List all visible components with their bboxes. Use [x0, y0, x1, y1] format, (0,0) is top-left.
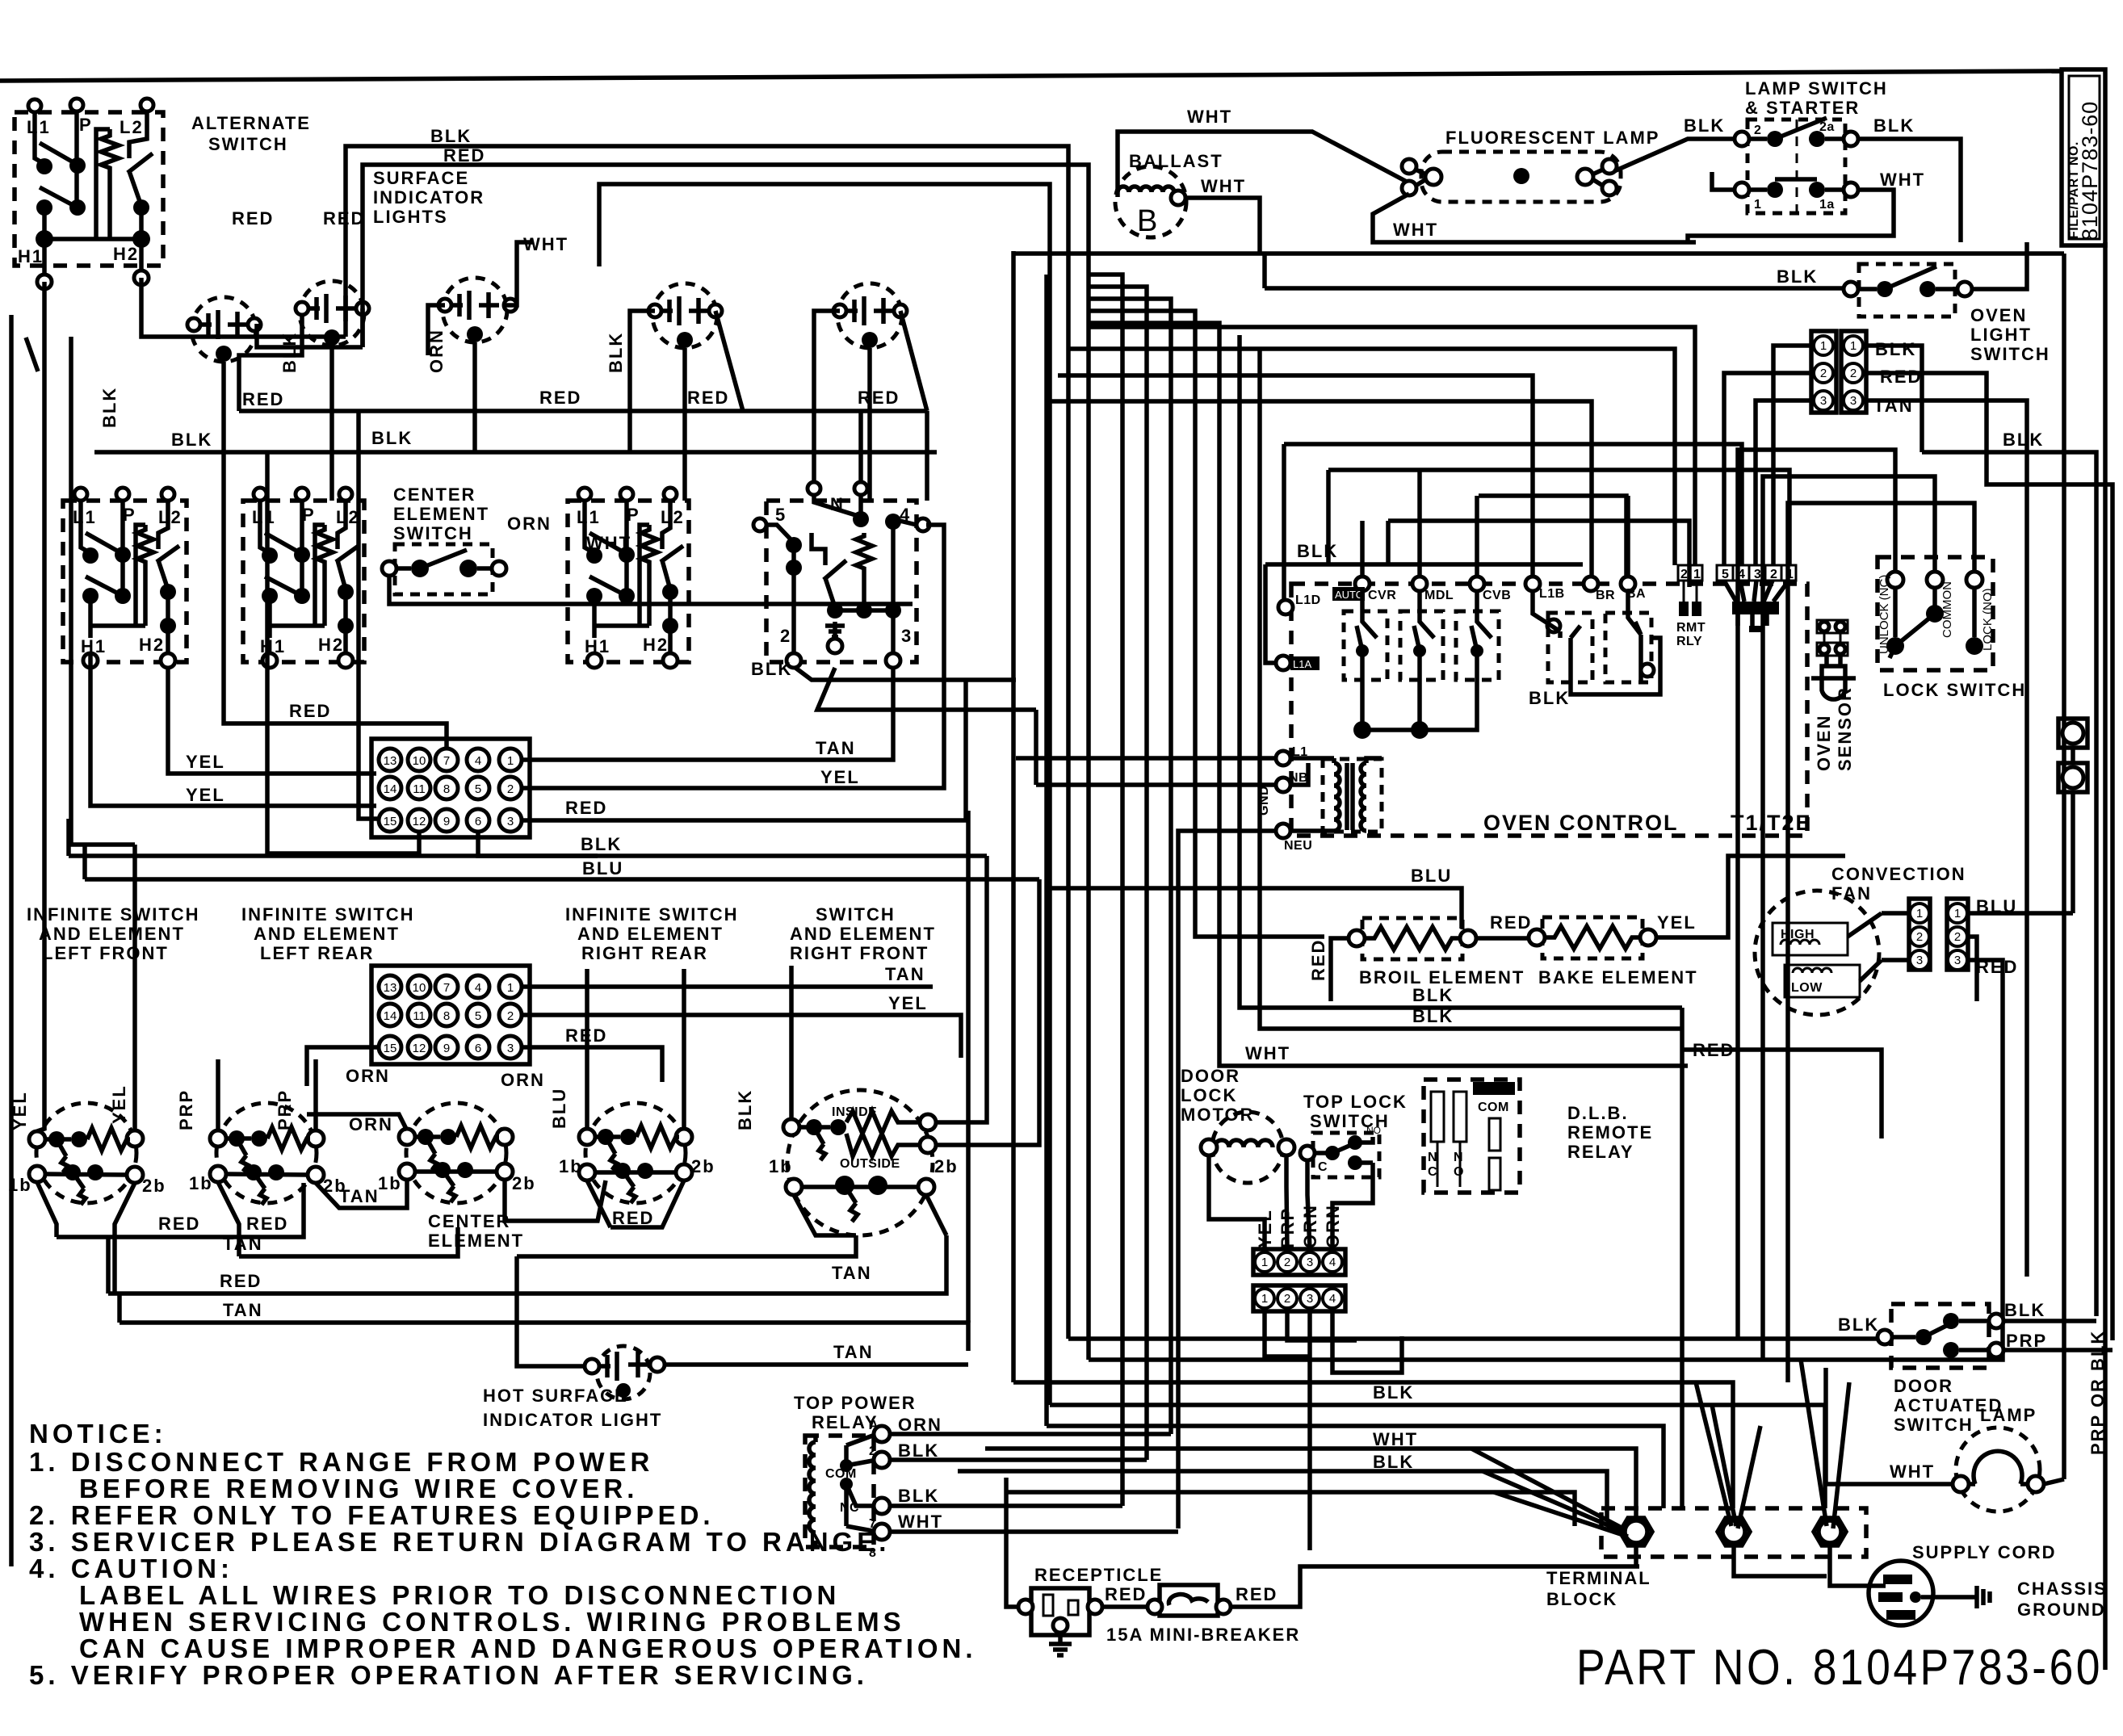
svg-text:COM: COM — [1478, 1101, 1509, 1114]
wire lamp left WHT — [1826, 1368, 1953, 1484]
svg-text:2: 2 — [1284, 1292, 1290, 1306]
contact dot b2 — [69, 199, 86, 216]
svg-text:LIGHT: LIGHT — [1970, 325, 2032, 345]
junction dot H1 — [36, 230, 53, 248]
svg-text:1: 1 — [1820, 339, 1827, 353]
connector B — [1841, 331, 1866, 413]
wires under connector row2 — [1265, 1311, 1402, 1550]
heater riser left — [96, 129, 110, 239]
wire lug3 down — [1830, 1545, 1886, 1586]
wire RED mid-left long — [239, 409, 927, 413]
svg-text:1b: 1b — [189, 1173, 213, 1193]
terminal P — [70, 99, 83, 111]
wire riser AUTO — [1360, 521, 1365, 577]
lock switch box — [1878, 557, 1993, 670]
wire motor left to pin1 — [1209, 1155, 1265, 1249]
wire H2 column — [139, 208, 144, 273]
L1A tag — [1276, 656, 1290, 670]
wire ORN ce — [307, 1114, 407, 1130]
svg-text:O: O — [1454, 1165, 1464, 1179]
svg-text:RED: RED — [1880, 367, 1922, 387]
svg-text:10: 10 — [413, 981, 426, 995]
svg-text:2: 2 — [507, 782, 514, 796]
terminal H2 — [134, 270, 149, 285]
wire lamp right up — [2044, 1479, 2064, 1484]
wire TAN long — [120, 1323, 968, 1351]
relay module 2 — [1400, 591, 1443, 680]
wire module4 bottom — [1571, 638, 1660, 694]
indicator light IL4 — [648, 283, 722, 348]
svg-text:1: 1 — [1786, 568, 1794, 581]
svg-text:4. CAUTION:: 4. CAUTION: — [29, 1554, 233, 1583]
wire circle5 drop — [867, 348, 872, 501]
center element switch — [382, 484, 913, 604]
svg-text:8104P783-60: 8104P783-60 — [2078, 101, 2102, 241]
svg-text:4: 4 — [1329, 1256, 1336, 1269]
transformer terminals — [1276, 751, 1290, 765]
svg-text:1b: 1b — [559, 1156, 583, 1176]
svg-text:BLK: BLK — [751, 659, 792, 679]
svg-text:INFINITE SWITCH: INFINITE SWITCH — [565, 904, 739, 925]
wire RF inside right — [936, 856, 987, 1122]
svg-text:RED: RED — [220, 1271, 262, 1291]
wire pin2 YEL to N-switch4 — [522, 525, 944, 788]
indicator light IL3 — [438, 278, 517, 342]
svg-text:NO: NO — [1366, 1125, 1381, 1136]
wire conn BLK right — [1866, 346, 1922, 452]
wire feed v1480 — [1089, 311, 1324, 937]
connector grid 1 — [371, 739, 530, 837]
wire circle2 drop — [329, 346, 334, 501]
wire bus b8 — [1006, 1492, 1575, 1526]
svg-text:11: 11 — [413, 1009, 426, 1023]
infinite switch element RR — [559, 1103, 715, 1203]
wire YEL2 — [90, 653, 376, 806]
switch arm 2 — [40, 187, 78, 208]
square connector S2 — [2058, 763, 2087, 792]
wire grid2 pin2 YEL — [522, 1015, 961, 1058]
wire bus b7 — [958, 1471, 1607, 1521]
wire lamp left WHT down — [1373, 194, 1696, 242]
wire RED right doorarea — [1682, 1050, 1882, 1138]
svg-text:BLU: BLU — [582, 858, 623, 878]
svg-text:BR: BR — [1596, 589, 1615, 602]
svg-text:1: 1 — [1954, 907, 1961, 920]
wire TAN LR — [239, 1227, 458, 1256]
wire v1199 long — [966, 811, 971, 1323]
svg-text:ORN: ORN — [349, 1114, 393, 1134]
svg-text:RIGHT FRONT: RIGHT FRONT — [790, 943, 929, 963]
svg-text:NEU: NEU — [1284, 839, 1312, 853]
wire bus b5 — [1047, 1426, 1664, 1508]
svg-text:7: 7 — [443, 981, 450, 995]
indicator light IL2 — [296, 281, 369, 346]
door lock motor — [1201, 1112, 1294, 1183]
wire lock riser C — [1788, 503, 1974, 1382]
svg-text:BLK: BLK — [2003, 430, 2044, 450]
svg-text:BLK: BLK — [581, 834, 622, 854]
wiper arrow — [128, 153, 153, 173]
infinite switch box LF — [63, 488, 187, 668]
wire ballast WHT up — [1118, 132, 1407, 197]
fluorescent lamp — [1402, 152, 1621, 202]
wire band v1645 — [1326, 470, 1331, 564]
wire relay 8 WHT — [890, 1529, 1178, 1534]
svg-text:BLK: BLK — [1838, 1315, 1879, 1335]
wire breaker right — [1231, 1566, 1639, 1607]
svg-text:2b: 2b — [512, 1173, 536, 1193]
svg-text:RED: RED — [1105, 1584, 1147, 1604]
svg-text:RED: RED — [1308, 939, 1328, 981]
wire pin3 RED — [522, 680, 966, 820]
svg-text:RED: RED — [612, 1208, 654, 1228]
wire RED LF-LR — [57, 1183, 304, 1237]
svg-text:TAN: TAN — [223, 1300, 263, 1320]
wire riser CVB — [1475, 496, 1479, 577]
svg-text:3: 3 — [1754, 568, 1761, 581]
svg-text:1: 1 — [1261, 1256, 1268, 1269]
svg-text:2b: 2b — [934, 1156, 959, 1176]
svg-text:LABEL ALL WIRES PRIOR TO DISCO: LABEL ALL WIRES PRIOR TO DISCONNECTION — [79, 1580, 840, 1610]
svg-text:B: B — [1137, 204, 1157, 238]
wire feed v1420 — [1089, 287, 1147, 1460]
ballast B — [1115, 166, 1186, 238]
wire BLU vert RR — [585, 969, 589, 1129]
svg-text:TERMINAL: TERMINAL — [1546, 1568, 1651, 1588]
svg-text:H2: H2 — [318, 635, 344, 655]
svg-text:TAN: TAN — [339, 1186, 380, 1206]
border top — [0, 71, 2062, 81]
svg-text:L1: L1 — [577, 507, 601, 527]
wire RR legs — [587, 1180, 684, 1227]
svg-text:12: 12 — [413, 1042, 426, 1055]
svg-text:2: 2 — [1820, 367, 1827, 380]
svg-text:1b: 1b — [769, 1156, 793, 1176]
convection fan motor — [1755, 891, 1882, 1015]
svg-text:AND ELEMENT: AND ELEMENT — [254, 924, 400, 944]
svg-text:L1A: L1A — [1293, 658, 1311, 670]
wire L1A feed — [1265, 564, 1276, 663]
svg-text:RED: RED — [539, 388, 581, 408]
wire circle2 left stub — [239, 315, 302, 411]
wire relay A ORN — [890, 1432, 1171, 1436]
svg-text:15: 15 — [384, 815, 397, 828]
wire xfmr L1 — [1016, 756, 1334, 761]
wire band h7 — [1328, 470, 1789, 565]
svg-text:L1: L1 — [27, 117, 51, 137]
svg-text:L1: L1 — [252, 507, 276, 527]
title block box — [2062, 69, 2105, 245]
wire band h8 — [1388, 521, 1689, 587]
svg-text:4: 4 — [1738, 568, 1745, 581]
svg-text:RED: RED — [289, 701, 331, 721]
svg-text:4: 4 — [1329, 1292, 1336, 1306]
svg-text:1: 1 — [1850, 339, 1857, 353]
svg-text:3: 3 — [1850, 394, 1857, 408]
svg-text:15: 15 — [384, 1042, 397, 1055]
svg-text:YEL: YEL — [186, 752, 225, 772]
svg-text:8: 8 — [443, 1009, 450, 1023]
wire P down — [74, 111, 79, 208]
svg-text:WHT: WHT — [586, 533, 631, 553]
wire N-box top stubs — [814, 411, 861, 482]
svg-text:AUTO: AUTO — [1335, 589, 1364, 601]
svg-text:2b: 2b — [142, 1176, 166, 1196]
wire circle5 right diag — [900, 311, 927, 501]
svg-text:YEL: YEL — [1657, 912, 1697, 933]
svg-text:LOCK (NO): LOCK (NO) — [1981, 588, 1995, 651]
wire xfmr NB — [1036, 763, 1308, 785]
svg-text:LEFT REAR: LEFT REAR — [260, 943, 374, 963]
svg-text:RED: RED — [687, 388, 729, 408]
wire third top bus — [599, 184, 1050, 1405]
wire fan mid — [1882, 913, 1977, 1001]
svg-text:5: 5 — [475, 1009, 481, 1023]
wire starter bottom loop — [1688, 190, 1894, 242]
svg-text:PRP OR BLK: PRP OR BLK — [2087, 1330, 2108, 1455]
svg-text:L2: L2 — [158, 507, 183, 527]
svg-text:INFINITE SWITCH: INFINITE SWITCH — [27, 904, 200, 925]
svg-text:BLK: BLK — [2004, 1300, 2045, 1320]
wire v444 to pin15 — [359, 411, 379, 819]
wire lock switch to pin3 — [1307, 1160, 1310, 1249]
wire YEL3 — [71, 337, 135, 1130]
svg-text:2: 2 — [1954, 930, 1961, 944]
svg-text:CENTER: CENTER — [428, 1211, 510, 1231]
svg-text:RMT: RMT — [1676, 621, 1706, 635]
svg-text:BLK: BLK — [1875, 339, 1916, 359]
svg-text:L2: L2 — [661, 507, 685, 527]
svg-text:YEL: YEL — [109, 1084, 129, 1124]
wire v2083 down — [1680, 1008, 1685, 1508]
wire feed v1450 — [1089, 299, 1171, 1434]
svg-text:BLK: BLK — [1684, 115, 1725, 136]
svg-text:ORN: ORN — [501, 1070, 545, 1090]
junction dot H2 — [132, 230, 150, 248]
svg-text:SENSOR: SENSOR — [1835, 686, 1855, 771]
broil element — [1349, 918, 1476, 959]
wire circle2 right to RED — [360, 308, 365, 347]
wire TAN long left — [117, 1294, 122, 1323]
svg-text:2: 2 — [1916, 930, 1923, 944]
svg-text:WHEN SERVICING CONTROLS. WIRIN: WHEN SERVICING CONTROLS. WIRING PROBLEMS — [79, 1607, 905, 1637]
wire BLK top bus — [346, 146, 1068, 1339]
svg-text:TAN: TAN — [833, 1342, 874, 1362]
svg-text:& STARTER: & STARTER — [1745, 98, 1860, 118]
svg-text:14: 14 — [384, 1009, 397, 1023]
svg-text:RED: RED — [565, 798, 607, 818]
AUTO tag — [1332, 587, 1365, 601]
transformer T1 — [1323, 759, 1382, 832]
wire N-sw 2 to bundle — [795, 668, 1016, 680]
chassis ground symbol — [1977, 1586, 1990, 1608]
svg-text:LOCK SWITCH: LOCK SWITCH — [1883, 680, 2026, 700]
wire grid2 pin15 left ORN — [307, 1047, 379, 1086]
svg-text:SWITCH: SWITCH — [1894, 1415, 1974, 1435]
wire bus b1 — [1068, 1336, 1891, 1341]
resistor heater — [101, 129, 119, 239]
wire BLU long left — [85, 845, 1039, 879]
wire PRP vert LR2 — [313, 1059, 318, 1130]
wire motor right to pin2 — [1286, 1155, 1287, 1249]
terminal L1 — [28, 99, 41, 112]
wire circle3 left stub — [428, 305, 445, 355]
connector 2-1 — [1676, 565, 1706, 648]
wire TAN LR2b-CE1b — [316, 1180, 407, 1208]
svg-text:3: 3 — [1820, 394, 1827, 408]
oven sensor bulb — [1811, 656, 1856, 699]
wire pin6 down — [478, 832, 598, 856]
svg-text:1: 1 — [1916, 907, 1923, 920]
wire center bundle v4 — [1011, 251, 1016, 1382]
svg-text:ELEMENT: ELEMENT — [393, 504, 489, 524]
svg-text:1b: 1b — [378, 1173, 402, 1193]
svg-text:9: 9 — [443, 1042, 450, 1055]
svg-text:12: 12 — [413, 815, 426, 828]
svg-text:MDL: MDL — [1424, 589, 1454, 602]
wire BLK to oven light switch — [1265, 254, 1844, 288]
svg-text:2a: 2a — [1819, 120, 1835, 134]
lamp switch and starter — [1735, 118, 1858, 213]
svg-text:RED: RED — [246, 1214, 288, 1234]
wire BLK vert RR2 — [682, 969, 686, 1129]
svg-text:5: 5 — [475, 782, 481, 796]
door lock connector row2 — [1253, 1285, 1345, 1311]
svg-text:1: 1 — [507, 754, 514, 768]
wire lock riser B — [1763, 476, 1935, 1360]
svg-text:BLK: BLK — [1873, 115, 1915, 136]
heater bus wire — [44, 237, 141, 241]
svg-text:L1D: L1D — [1295, 593, 1321, 607]
svg-text:YEL: YEL — [10, 1091, 30, 1130]
wire broil left — [1331, 938, 1349, 1001]
wire RF outside right — [936, 879, 1039, 1145]
wire bus b3 — [1013, 1382, 1733, 1508]
svg-text:2: 2 — [1850, 367, 1857, 380]
svg-text:ORN: ORN — [507, 514, 552, 534]
svg-text:OVEN: OVEN — [1970, 305, 2027, 325]
wire band h2 — [1068, 349, 1675, 565]
wire band h1 — [1089, 327, 1695, 565]
fan connector B — [1947, 899, 1968, 970]
svg-text:1: 1 — [507, 981, 514, 995]
svg-text:1a: 1a — [1819, 198, 1835, 212]
wire bake right YEL — [1656, 856, 1845, 937]
wire terminal fan 3 — [1801, 1360, 1849, 1528]
svg-text:RED: RED — [158, 1214, 200, 1234]
label INFINITE SWITCH LEFT FRONT — [27, 904, 200, 963]
svg-text:BLK: BLK — [1777, 266, 1818, 287]
svg-text:SWITCH: SWITCH — [816, 904, 896, 925]
svg-text:SWITCH: SWITCH — [1970, 344, 2050, 364]
svg-text:3: 3 — [1916, 954, 1923, 967]
svg-text:CVB: CVB — [1483, 589, 1511, 602]
recepticle — [1018, 1588, 1102, 1635]
wire broil-bake — [1476, 936, 1531, 941]
wire relay 7 BLK — [890, 1503, 1114, 1508]
svg-text:RED: RED — [242, 389, 284, 409]
svg-text:L2: L2 — [120, 117, 144, 137]
wire plug to ground — [1921, 1595, 1977, 1600]
svg-text:OVEN CONTROL: OVEN CONTROL — [1483, 811, 1679, 835]
svg-text:L1B: L1B — [1539, 587, 1565, 601]
svg-text:L2: L2 — [336, 507, 360, 527]
wire feed v1535 — [1240, 335, 1682, 1008]
svg-text:HOT SURFACE: HOT SURFACE — [483, 1386, 628, 1406]
svg-text:15A MINI-BREAKER: 15A MINI-BREAKER — [1106, 1625, 1300, 1645]
door lock connector row1 — [1253, 1249, 1345, 1275]
wire recepticle to breaker — [1102, 1604, 1155, 1609]
lamp — [1953, 1428, 2044, 1512]
wire left column to H1 — [42, 208, 47, 279]
svg-text:5: 5 — [775, 505, 787, 525]
label INFINITE SWITCH RIGHT REAR — [565, 904, 739, 963]
square connector S1 — [2058, 719, 2087, 748]
oven sensor connectors — [1817, 620, 1848, 656]
svg-text:COMMON: COMMON — [1940, 581, 1954, 638]
wire L1 down — [35, 112, 44, 164]
svg-text:1: 1 — [1693, 568, 1701, 581]
svg-text:BAKE ELEMENT: BAKE ELEMENT — [1538, 967, 1698, 988]
terminal block box — [1601, 1508, 1866, 1557]
wire feed v1390 — [1089, 275, 1122, 1506]
svg-text:2: 2 — [1754, 124, 1761, 137]
alternate switch box — [15, 112, 163, 266]
connector grid 2 — [371, 966, 530, 1064]
wire circle4 left stub — [630, 311, 655, 452]
svg-text:6: 6 — [475, 1042, 481, 1055]
svg-text:AND ELEMENT: AND ELEMENT — [39, 924, 185, 944]
svg-text:LIGHTS: LIGHTS — [373, 207, 448, 227]
relay module 4 — [1533, 591, 1592, 682]
wire H1 to LF — [37, 282, 44, 1131]
wire RF legs — [794, 1195, 946, 1235]
wire BLK long left — [69, 819, 987, 856]
svg-text:SWITCH: SWITCH — [393, 523, 473, 543]
svg-text:11: 11 — [413, 782, 426, 796]
wire N-sw mid to bundle — [817, 668, 1036, 710]
svg-text:CENTER: CENTER — [393, 484, 476, 505]
infinite switch box LR — [243, 488, 364, 668]
svg-text:C: C — [1318, 1160, 1328, 1174]
leader arrow — [26, 338, 38, 371]
wire LR 1b leg — [218, 1182, 239, 1256]
wire lamp right to switch — [1614, 139, 1742, 171]
wire CE 2b leg — [505, 1180, 606, 1221]
bake element — [1529, 917, 1656, 958]
label INFINITE SWITCH LEFT REAR — [241, 904, 415, 963]
wire circle4 right diag — [715, 311, 743, 411]
wire xfmr top links — [1334, 758, 1382, 763]
svg-text:2: 2 — [1680, 568, 1688, 581]
svg-text:RECEPTICLE: RECEPTICLE — [1034, 1565, 1163, 1585]
svg-text:2: 2 — [780, 626, 791, 646]
svg-text:RED: RED — [1490, 912, 1532, 933]
svg-text:2: 2 — [507, 1009, 514, 1023]
wire lock switch to pin4 — [1332, 1163, 1373, 1249]
svg-text:D.L.B.: D.L.B. — [1567, 1103, 1629, 1123]
svg-text:H2: H2 — [139, 635, 165, 655]
wire right margin v2 — [1987, 452, 2113, 1340]
wire BLK right margin — [1922, 452, 2096, 1316]
svg-text:BLOCK: BLOCK — [1546, 1589, 1617, 1609]
contact dot c1 — [133, 199, 149, 216]
DLB remote relay box — [1424, 1080, 1520, 1193]
wire band h5 — [1479, 496, 1626, 577]
svg-text:PART NO. 8104P783-60: PART NO. 8104P783-60 — [1576, 1640, 2103, 1696]
infinite switch element LR — [189, 1103, 347, 1205]
svg-text:8: 8 — [443, 782, 450, 796]
